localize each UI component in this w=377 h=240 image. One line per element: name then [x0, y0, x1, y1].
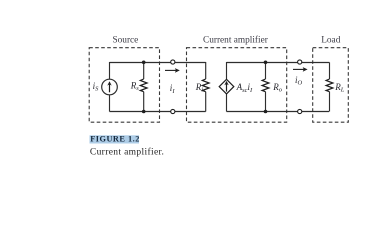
- svg-text:iI: iI: [170, 83, 176, 95]
- wire: dependent source bottom stem: [226, 94, 228, 112]
- source dashed box: [89, 48, 159, 123]
- wire: bottom output wire from diamond to load: [227, 111, 330, 113]
- svg-text:RL: RL: [334, 82, 345, 94]
- wire: dependent source top stem: [226, 62, 228, 79]
- resistor Rs zigzag: [140, 79, 147, 92]
- wire: Rs bottom stem: [143, 92, 145, 112]
- terminal: input top (open circle): [171, 60, 175, 64]
- svg-text:Current amplifier.: Current amplifier.: [90, 147, 164, 158]
- svg-text:Rs: Rs: [130, 80, 140, 92]
- junction dot: bottom of Ro: [264, 110, 268, 114]
- current source iS (circle with up arrow): [102, 79, 118, 95]
- terminal: input bottom (open circle): [171, 109, 175, 113]
- wire: Ro top stem: [265, 62, 267, 79]
- svg-text:iS: iS: [93, 81, 100, 93]
- wire: RL top stem: [329, 63, 331, 80]
- junction dot: top of Rs: [142, 61, 146, 65]
- resistor Ri zigzag: [202, 79, 209, 92]
- wire: current source top stem: [109, 62, 111, 79]
- svg-text:Ri: Ri: [195, 82, 204, 94]
- wire: Ri bottom stem: [205, 92, 207, 112]
- wire: Ro bottom stem: [265, 92, 267, 112]
- resistor Ro zigzag: [262, 79, 269, 92]
- wire: top input wire from source to Ri: [110, 62, 206, 64]
- wire: top output wire from diamond to load: [227, 62, 330, 64]
- current arrow iI: [165, 68, 180, 73]
- terminal: output bottom (open circle): [298, 109, 302, 113]
- svg-text:Load: Load: [321, 36, 340, 46]
- wire: Ri top stem: [205, 62, 207, 79]
- svg-text:Ro: Ro: [272, 82, 283, 94]
- wire: Rs top stem: [143, 62, 145, 79]
- svg-text:Current amplifier: Current amplifier: [203, 35, 269, 46]
- svg-text:Source: Source: [112, 36, 138, 46]
- wire: current source bottom stem: [109, 95, 111, 112]
- load dashed box: [313, 48, 349, 123]
- current amplifier dashed box: [187, 48, 287, 123]
- junction dot: top of Ro: [264, 61, 268, 65]
- resistor RL zigzag: [326, 79, 333, 92]
- wire: bottom input wire from source to Ri: [110, 111, 206, 113]
- svg-text:iO: iO: [295, 75, 303, 87]
- svg-text:AsciI: AsciI: [236, 82, 253, 94]
- svg-text:FIGURE 1.2: FIGURE 1.2: [90, 135, 140, 144]
- caption highlight bar: [90, 135, 140, 143]
- current arrow iO: [293, 67, 308, 72]
- wire: RL bottom stem: [329, 92, 331, 112]
- terminal: output top (open circle): [298, 60, 302, 64]
- junction dot: bottom of Rs: [142, 110, 146, 114]
- dependent current source Asc*iI (diamond with up arrow): [219, 79, 234, 94]
